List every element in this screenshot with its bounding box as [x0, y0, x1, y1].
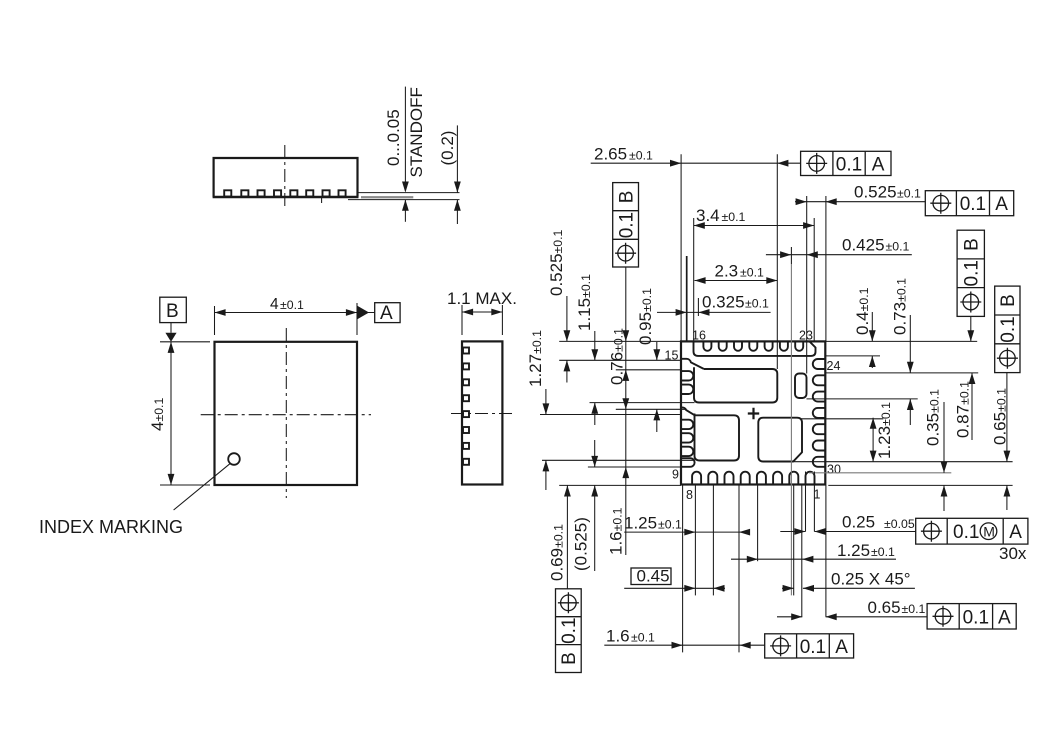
dim 1.25±0.1 bottom left: [624, 514, 750, 536]
dim 1.27±0.1: [526, 330, 549, 490]
bottom pins 1-8: [692, 472, 814, 485]
dimension (0.2): [438, 125, 461, 224]
dim 1.15±0.1 left: [575, 274, 598, 425]
gray vertical extension through package: [790, 264, 792, 595]
dim 1.25±0.1 bottom right: [731, 541, 896, 563]
svg-text:±0.1: ±0.1: [897, 187, 921, 201]
dim 0.87±0.1 right: [954, 373, 976, 440]
svg-text:M: M: [983, 523, 995, 539]
pin 11: [681, 420, 693, 429]
pad B small pad: [795, 374, 807, 399]
svg-text:9: 9: [672, 468, 679, 482]
center cross mark: [748, 408, 759, 419]
pad A upper exposed pad: [694, 367, 777, 402]
svg-text:(0.525): (0.525): [572, 517, 591, 571]
index marking leader: [174, 464, 230, 510]
svg-text:2.3: 2.3: [715, 262, 739, 281]
svg-text:B: B: [617, 191, 638, 204]
svg-text:±0.1: ±0.1: [902, 602, 926, 616]
svg-text:0.425: 0.425: [842, 236, 885, 255]
svg-text:0.25: 0.25: [842, 513, 875, 532]
vertical FCF B/0.1/pos right #4: [995, 286, 1020, 373]
tick below side view: [321, 197, 323, 204]
svg-text:INDEX MARKING: INDEX MARKING: [39, 517, 183, 537]
svg-text:±0.1: ±0.1: [745, 297, 769, 311]
top view vertical centerline: [285, 328, 287, 498]
svg-text:B: B: [559, 652, 580, 665]
pin 14: [681, 371, 693, 380]
svg-text:±0.1: ±0.1: [740, 266, 764, 280]
svg-text:0.1: 0.1: [559, 617, 580, 643]
svg-text:0.525: 0.525: [854, 183, 897, 202]
feature control frame 2.65 (0.1 A) top: [801, 151, 891, 175]
dim 1.23±0.1 right: [870, 402, 894, 462]
vertical FCF B/0.1/pos top-left: [613, 183, 639, 267]
svg-text:B: B: [962, 238, 983, 251]
svg-text:4: 4: [270, 296, 279, 313]
dim 2.65±0.1: [591, 145, 801, 167]
svg-text:0.45: 0.45: [637, 567, 670, 586]
side view leads (8 squares): [224, 190, 345, 196]
pin 13: [681, 385, 693, 394]
svg-text:0.25 X 45°: 0.25 X 45°: [831, 570, 911, 589]
svg-text:B: B: [166, 301, 179, 322]
dim (0.525) left bottom: [572, 440, 599, 571]
svg-text:0.325: 0.325: [702, 293, 745, 312]
dim 1.1 MAX: [447, 289, 517, 335]
dim 0.65±0.1 right vertical with FCF leader: [991, 373, 1011, 510]
svg-text:2.65: 2.65: [594, 145, 627, 164]
feature control frame 0.525 (0.1 A): [925, 191, 1013, 216]
svg-text:0.1: 0.1: [962, 260, 983, 286]
dim 0.525±0.1 top right: [795, 183, 925, 206]
svg-text:A: A: [835, 637, 848, 658]
svg-text:30x: 30x: [999, 544, 1027, 563]
dim 0.35±0.1 right: [924, 389, 948, 511]
svg-text:±0.05: ±0.05: [884, 517, 915, 531]
dim 2.3±0.1: [695, 262, 778, 284]
gray extension line pin30 bottom: [809, 472, 951, 474]
svg-text:1.1 MAX.: 1.1 MAX.: [447, 289, 517, 308]
pad D lower-right exposed pad with chamfer: [758, 418, 802, 462]
index marking circle: [228, 453, 240, 465]
dim 0.25±0.05 with FCF 30x: [780, 513, 915, 535]
svg-text:0...0.05: 0...0.05: [384, 109, 403, 166]
svg-text:0.1: 0.1: [963, 607, 989, 628]
svg-text:23: 23: [799, 329, 813, 343]
svg-text:±0.1: ±0.1: [871, 545, 895, 559]
seating plane lines: [348, 193, 460, 200]
datum B box and triangle: [160, 297, 187, 342]
pin 12 with chamfer to pad C: [681, 407, 695, 415]
svg-text:0.1: 0.1: [800, 637, 826, 658]
svg-text:STANDOFF: STANDOFF: [407, 87, 426, 177]
right pins 24-30: [813, 359, 826, 467]
svg-text:0.1: 0.1: [836, 154, 862, 175]
boxed dim 0.45: [631, 567, 671, 586]
svg-text:(0.2): (0.2): [438, 131, 457, 166]
dim 4±0.1 vertical (top view): [148, 342, 210, 485]
svg-text:±0.1: ±0.1: [629, 149, 653, 163]
side view 2 centerline: [451, 413, 512, 415]
svg-text:A: A: [998, 607, 1011, 628]
svg-text:A: A: [872, 154, 885, 175]
svg-text:A: A: [380, 303, 393, 324]
svg-text:±0.1: ±0.1: [886, 240, 910, 254]
svg-text:1.25: 1.25: [837, 541, 870, 560]
pin 15 with chamfer to pad A: [681, 359, 704, 369]
dim 0.65±0.1 bottom right with FCF: [777, 598, 1016, 629]
bottom vertical extension lines: [683, 472, 826, 653]
svg-text:0.1: 0.1: [617, 212, 638, 238]
dim 3.4±0.1: [694, 206, 815, 229]
pad C lower-left exposed pad: [695, 414, 740, 461]
vertical FCF B/0.1/pos right #3: [957, 230, 984, 341]
svg-text:1.6: 1.6: [606, 627, 630, 646]
fused top lead bar pins 16-23: [694, 341, 816, 356]
svg-text:24: 24: [827, 359, 841, 373]
svg-text:0.1: 0.1: [960, 194, 986, 215]
svg-text:A: A: [1009, 522, 1022, 543]
svg-text:±0.1: ±0.1: [658, 518, 682, 532]
dim 0.69±0.1 left bottom: [548, 485, 571, 588]
dim 0.4±0.1 right: [853, 287, 876, 368]
svg-text:0.1: 0.1: [998, 316, 1019, 342]
svg-text:B: B: [998, 294, 1019, 307]
pin 9 upper bump: [681, 447, 693, 456]
svg-text:1.25: 1.25: [624, 514, 657, 533]
svg-text:±0.1: ±0.1: [631, 631, 655, 645]
dim 4±0.1 horizontal (top view): [215, 296, 375, 335]
right horizontal extension lines: [794, 341, 1013, 485]
top vertical extension lines: [681, 154, 826, 373]
svg-text:30: 30: [827, 463, 841, 477]
svg-text:A: A: [995, 194, 1008, 215]
side view vertical centerline: [284, 145, 286, 208]
QFN package outline (bottom view): [681, 341, 825, 484]
dim 1.6±0.1 bottom with FCF: [604, 627, 853, 659]
dim 0.76±0.1 and 1.6±0.1 left chain: [607, 267, 630, 555]
dim 0.425±0.1: [766, 236, 912, 259]
svg-text:8: 8: [686, 488, 693, 502]
standoff dimension 0...0.05: [384, 87, 426, 222]
svg-text:3.4: 3.4: [696, 206, 720, 225]
side view 2 body (1.1 MAX): [462, 341, 502, 484]
dim 0.45 line and 0.25 X 45 line: [624, 570, 915, 592]
dim 0.325±0.1: [657, 293, 771, 316]
left horizontal extension lines: [540, 341, 695, 485]
top view horizontal centerline: [201, 414, 371, 416]
svg-text:0.1: 0.1: [953, 522, 979, 543]
pin 10: [681, 433, 693, 442]
dim 0.525±0.1 left: [547, 229, 570, 382]
svg-text:±0.1: ±0.1: [722, 210, 746, 224]
side view 2 leads: [463, 348, 469, 465]
pin number labels: [665, 329, 841, 503]
dim 0.73±0.1 right: [891, 278, 914, 425]
dim 0.95±0.1 left: [636, 288, 660, 432]
feature control frame 0.1 M A: [916, 518, 1028, 563]
side view body (top-left): [213, 158, 359, 198]
svg-text:0.65: 0.65: [868, 598, 901, 617]
datum A box and triangle: [357, 303, 400, 324]
top view package square: [215, 342, 358, 485]
svg-text:±0.1: ±0.1: [280, 298, 304, 312]
pin 9 bump at pad C corner: [681, 458, 695, 467]
vertical FCF pos/0.1/B bottom-left: [556, 589, 582, 673]
